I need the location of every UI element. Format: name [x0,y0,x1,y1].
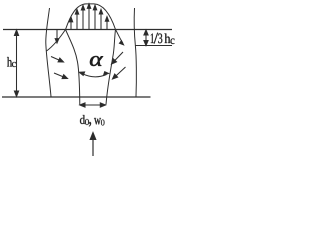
keyhole inner-right wall [106,30,116,105]
up arrow under bell x=77 [76,14,78,29]
text glyph hc-c [12,62,16,67]
up arrow under bell x=89 [88,8,90,29]
left flow arrow 2 [54,73,64,77]
bottom surface line [2,96,151,98]
hc dimension line [16,33,18,94]
down arrow onto pool surface (left) [56,30,58,40]
keyhole inner-left wall [66,30,80,105]
text glyph w0-0 [101,119,104,125]
left flow arrow 1 [51,57,60,61]
right flow arrow 2 [115,67,125,77]
text glyph w0-w [94,118,101,124]
text glyph d0-0 [85,119,89,125]
text glyph third-h [164,33,170,43]
text glyph hc-h [7,57,12,67]
text glyph third-3 [158,34,162,44]
text glyph alpha [90,56,103,66]
d0/w0 dimension line [83,104,103,106]
up arrow under bell x=107 [106,21,108,29]
text glyph comma [89,122,91,127]
up arrow under bell x=95 [94,10,96,29]
text glyph third-c [170,39,174,44]
1/3hc dimension line [145,33,147,44]
up arrow under bell x=71 [70,22,72,29]
text glyph third-1 [151,33,154,43]
top surface line [3,29,172,31]
text glyph third-slash [154,33,158,44]
up arrow under bell x=83 [82,10,84,29]
text glyph d0-d [80,115,85,124]
bottom center up arrow [92,138,94,157]
outer-right pool boundary [134,8,136,97]
arc pressure bell curve with tails [47,4,123,51]
right flow arrow 1 [114,52,123,61]
up arrow under bell x=101 [100,14,102,29]
bell tail end arrowhead (right, pointing down-right) [119,40,125,46]
outer-left pool boundary [46,8,51,97]
1/3 hc level line [136,45,173,47]
alpha angle arc [82,73,107,77]
